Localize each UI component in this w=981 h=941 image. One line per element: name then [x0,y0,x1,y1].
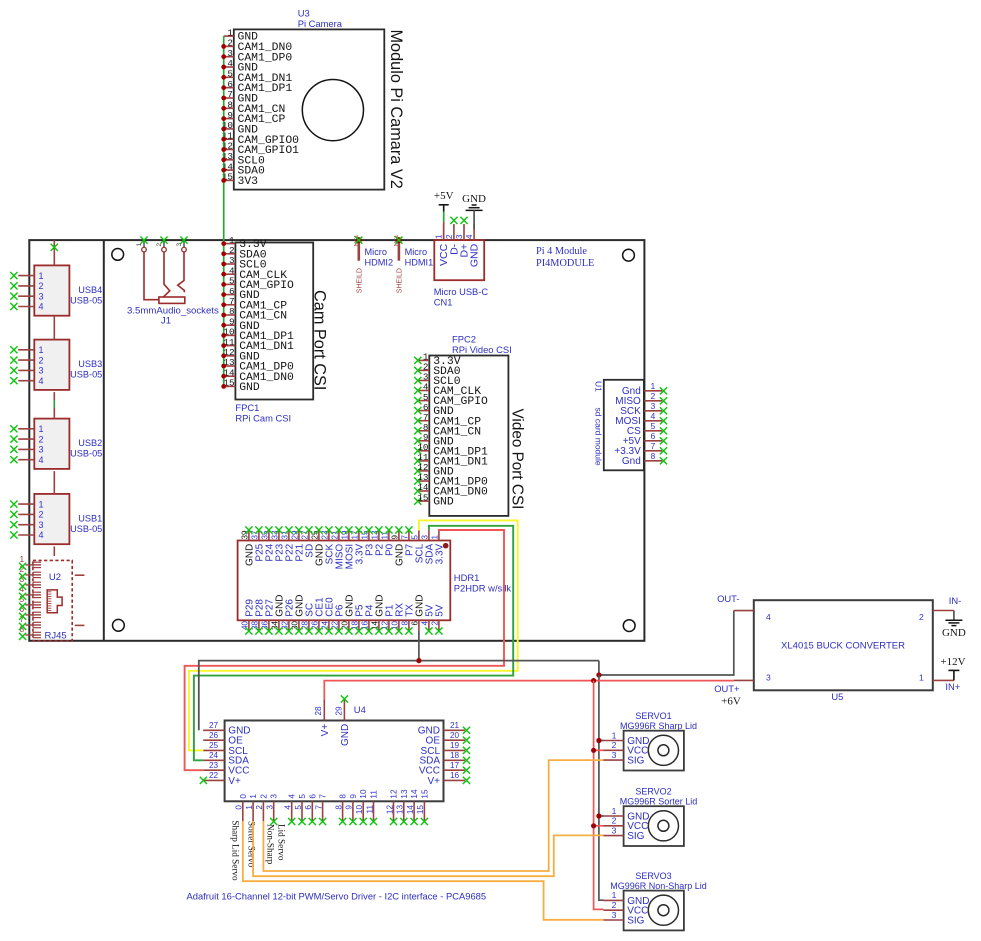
svg-text:GND: GND [469,243,481,267]
svg-text:USB1: USB1 [78,514,102,524]
svg-text:MG996R Sharp Lid: MG996R Sharp Lid [620,721,697,731]
svg-text:HDR1: HDR1 [454,572,480,583]
CN1 reference labels [434,287,489,308]
no-connect X marks HDR1 bottom pins [245,627,442,634]
svg-text:6: 6 [304,805,313,810]
junction dot GND at HDR1 pin6 [416,658,421,663]
connector USB4 USB-05 [18,265,102,315]
svg-text:7: 7 [401,535,410,540]
svg-text:4: 4 [39,455,44,465]
svg-text:8: 8 [334,805,343,810]
no-connect X marks USB2 pins [10,425,17,463]
svg-text:11: 11 [381,531,390,540]
svg-text:2: 2 [431,620,440,625]
svg-text:2: 2 [651,391,656,401]
svg-text:MG996R Sorter Lid: MG996R Sorter Lid [620,796,698,806]
svg-text:6: 6 [651,431,656,441]
U1 side labels [593,381,603,466]
connector FPC2 RPi Video CSI [414,352,508,516]
svg-text:Video Port CSI: Video Port CSI [509,409,526,510]
svg-text:6: 6 [308,794,317,799]
svg-text:XL4015 BUCK CONVERTER: XL4015 BUCK CONVERTER [781,641,905,652]
connector FPC1 RPi Cam CSI [223,235,313,400]
svg-text:15: 15 [417,492,428,503]
junction dot GND at SERVO2 [596,813,601,818]
wire camera bus (green) U3 to FPC1 [223,36,225,386]
connector CN1 Micro USB-C [434,224,484,280]
svg-text:4: 4 [421,620,430,625]
connector USB2 USB-05 [18,419,102,469]
svg-text:1: 1 [39,424,44,434]
svg-text:8: 8 [339,794,348,799]
svg-text:SHEILD: SHEILD [356,268,363,293]
svg-text:14: 14 [406,805,415,815]
junction dot V+ bus [591,678,596,683]
svg-text:8: 8 [651,451,656,461]
svg-text:GND: GND [433,497,454,509]
svg-text:26: 26 [209,731,219,740]
converter U5 XL4015 buck [734,600,954,690]
svg-text:13: 13 [396,805,405,815]
wire red 3.3V HDR1 pin1 to U4 pin23 [185,530,504,770]
svg-text:10: 10 [359,789,368,799]
svg-text:1: 1 [39,271,44,281]
svg-text:11: 11 [365,805,374,814]
junction dot GND bus corner [596,672,601,677]
wire USB4 to USB3 [53,316,55,340]
svg-text:Modulo Pi Camara V2: Modulo Pi Camara V2 [387,30,405,189]
svg-text:4: 4 [284,805,293,810]
servo SERVO3 MG996R Non-Sharp Lid [604,871,707,931]
servo channel label Sorter Servo [246,821,256,868]
svg-text:GND: GND [462,193,486,205]
svg-text:27: 27 [209,721,219,730]
svg-text:USB-05: USB-05 [70,295,102,305]
svg-text:4: 4 [651,411,656,421]
svg-text:40: 40 [241,620,250,629]
svg-text:3: 3 [270,794,279,799]
wire USB1 to U2 [53,546,55,556]
wire orange servo0 U4 pin2 to SERVO1 SIG [263,760,603,871]
svg-text:1: 1 [919,673,924,683]
connector J1 3.5mm audio sockets [136,240,186,303]
svg-text:3: 3 [651,401,656,411]
svg-text:2: 2 [919,612,924,622]
no-connect X Micro HDMI1 [395,237,402,244]
svg-text:+6V: +6V [721,696,741,708]
svg-text:3: 3 [39,445,44,455]
svg-text:1: 1 [39,345,44,355]
wire gray GND branch SERVO2 [599,815,604,817]
wire gray GND to U5 pin4 OUT- [599,611,734,675]
svg-text:7: 7 [319,794,328,799]
wire red V+ branch SERVO2 [594,825,604,827]
svg-text:1: 1 [612,806,617,816]
junction dot Micro HDMI2 on board edge [356,237,362,243]
wire gray GND HDR1 pin6 down [418,630,420,660]
no-connect X on CN1 pins 2 and 3 [450,217,467,224]
svg-text:OUT-: OUT- [717,593,739,604]
svg-text:USB-05: USB-05 [70,524,102,534]
no-connect X marks U1 pins [660,387,667,464]
wire GND symbol to CN1 pin4 [473,210,475,229]
no-connect X U4 pin 22 [200,777,207,784]
svg-text:MG996R Non-Sharp Lid: MG996R Non-Sharp Lid [610,881,707,891]
no-connect X marks HDR1 top pins [245,526,412,533]
svg-text:9: 9 [349,794,358,799]
svg-text:1: 1 [20,554,25,564]
svg-text:24: 24 [209,751,219,760]
mounting hole top-right [623,249,635,261]
svg-text:23: 23 [209,761,219,770]
wire orange servo2 U4 pin0 to SERVO3 SIG [243,821,604,920]
no-connect X marks USB3 pins [10,346,17,384]
Pi 4 Module board outline [29,240,644,641]
wire gray GND bus down to servos [599,675,604,900]
svg-text:SERVO3: SERVO3 [635,871,671,881]
svg-text:5: 5 [298,794,307,799]
svg-text:2: 2 [39,281,44,291]
svg-text:FPC1: FPC1 [235,402,259,413]
svg-text:6: 6 [411,620,420,625]
wire USB3 to USB2 (green mid segment) [53,392,55,419]
svg-text:16: 16 [450,771,460,780]
svg-text:GND: GND [239,382,260,394]
junction dot V+ at SERVO2 [591,823,596,828]
module U1 sd card [604,380,662,471]
svg-text:3: 3 [612,825,617,835]
svg-text:17: 17 [450,761,460,770]
svg-text:2: 2 [612,816,617,826]
svg-text:9: 9 [345,805,354,810]
svg-text:3: 3 [39,520,44,530]
svg-text:4: 4 [39,530,44,540]
mounting hole top-left [112,249,124,261]
junction dot Micro HDMI1 on board edge [396,237,402,243]
svg-text:13: 13 [400,789,409,799]
svg-text:RJ45: RJ45 [45,631,67,642]
U3 reference labels [298,8,343,30]
svg-text:25: 25 [209,741,219,750]
FPC1 reference labels [235,402,291,424]
svg-text:21: 21 [450,721,460,730]
svg-text:3: 3 [455,234,464,239]
net label IN+ [945,681,960,692]
no-connect X U4 right pins 21-16 [463,727,470,784]
svg-text:11: 11 [370,790,379,799]
connector Micro HDMI2 [354,235,393,294]
FPC1 side text Cam Port CSI [311,290,329,390]
svg-text:3: 3 [421,535,430,540]
svg-text:2: 2 [445,234,454,239]
power symbol GND at CN1 pin4 [462,193,486,210]
svg-text:9: 9 [391,535,400,540]
mounting hole bottom-left [113,619,125,631]
svg-text:18: 18 [450,751,460,760]
connector U2 RJ45 [20,554,85,642]
wire red V+ U4 pin28 to U5 pin3 OUT+ [324,681,734,700]
svg-text:Sharp Lid Servo: Sharp Lid Servo [231,820,241,881]
svg-text:Pi Camera: Pi Camera [298,18,343,29]
svg-text:5: 5 [651,421,656,431]
no-connect X marks USB1 pins [10,501,17,539]
svg-text:Sorter Servo: Sorter Servo [246,821,256,868]
U4 caption Adafruit PCA9685 [187,891,487,902]
connector USB3 USB-05 [18,340,102,390]
svg-text:22: 22 [209,771,219,780]
junction dots on camera bus at U3 pins [221,44,226,183]
wire gray GND horizontal to U4 pin27 [199,661,599,731]
svg-text:4: 4 [766,612,771,622]
svg-text:Micro USB-C: Micro USB-C [434,287,489,297]
svg-text:0: 0 [235,805,244,810]
net label OUT- [717,593,739,604]
FPC2 side text Video Port CSI [509,409,526,510]
svg-text:USB2: USB2 [78,438,102,448]
svg-text:4: 4 [288,794,297,799]
svg-text:Adafruit 16-Channel 12-bit PWM: Adafruit 16-Channel 12-bit PWM/Servo Dri… [187,891,487,902]
servo channel label Non-Sharp Lid Servo [266,824,287,865]
no-connect X on USB4 top wire [51,244,58,251]
svg-text:1: 1 [651,381,656,391]
svg-text:3.5mmAudio_sockets: 3.5mmAudio_sockets [127,306,219,317]
svg-text:7: 7 [314,805,323,810]
svg-text:SIG: SIG [627,915,644,926]
net label OUT+ and +6V [714,683,741,708]
svg-text:U5: U5 [831,691,843,702]
svg-text:3: 3 [612,750,617,760]
svg-text:OUT+: OUT+ [714,683,740,694]
mounting hole bottom-right [623,620,635,632]
svg-text:8: 8 [401,620,410,625]
svg-text:3: 3 [266,805,275,810]
svg-text:P2HDR w/silk: P2HDR w/silk [454,583,512,594]
wire gray GND branch SERVO1 [599,740,604,742]
U3 camera lens circle [302,80,363,141]
svg-text:USB-05: USB-05 [70,370,102,380]
svg-text:FPC2: FPC2 [452,334,476,345]
power symbol +12V at U5 pin1 [940,656,965,680]
driver U4 PCA9685 [203,699,465,821]
svg-text:IN-: IN- [949,595,962,606]
wire USB4 to board edge [53,240,55,265]
svg-text:1: 1 [39,499,44,509]
svg-text:U2: U2 [49,572,61,583]
wire red V+ bus down to servos [594,681,604,910]
svg-text:Micro: Micro [405,247,427,257]
svg-text:0: 0 [239,794,248,799]
servo SERVO2 MG996R Sorter Lid [604,786,698,846]
svg-text:U1: U1 [593,381,603,392]
servo channel label Sharp Lid Servo [231,820,241,881]
svg-text:15: 15 [416,805,425,815]
servo SERVO1 MG996R Sharp Lid [604,711,698,771]
svg-text:V+: V+ [320,724,331,737]
svg-text:10: 10 [355,805,364,815]
U5 reference label [831,691,843,702]
svg-text:1: 1 [612,730,617,740]
no-connect X Micro HDMI2 [355,237,362,244]
svg-text:1: 1 [612,890,617,900]
svg-text:SIG: SIG [627,756,644,767]
svg-text:28: 28 [314,706,323,716]
svg-text:7: 7 [651,441,656,451]
svg-text:4: 4 [465,234,474,239]
wire green +5V to CN1 pin1 [443,212,445,241]
svg-text:RPi Video CSI: RPi Video CSI [452,344,512,355]
svg-text:IN+: IN+ [945,681,960,692]
wire yellow SCL HDR1 pin5 to U4 pin25 [189,520,518,750]
svg-text:HDMI1: HDMI1 [405,257,434,267]
svg-text:USB4: USB4 [78,285,102,295]
svg-text:SERVO1: SERVO1 [635,711,671,721]
connector Micro HDMI1 [394,235,433,294]
svg-text:2: 2 [259,794,268,799]
svg-text:USB-05: USB-05 [70,449,102,459]
wire USB2 to USB1 [53,471,55,494]
svg-text:2: 2 [612,900,617,910]
svg-text:1: 1 [431,535,440,540]
wire green SDA HDR1 pin3 to U4 pin24 [194,526,513,761]
no-connect X U4 pin 29 [341,695,348,702]
no-connect X on J1 pins [140,237,187,244]
svg-text:Lid Servo: Lid Servo [276,824,286,861]
svg-text:U4: U4 [354,704,366,715]
svg-text:GND: GND [340,724,351,746]
svg-text:4: 4 [39,376,44,386]
svg-text:+5V: +5V [434,190,454,202]
net label IN- [949,595,962,606]
wire orange servo1 U4 pin1 to SERVO2 SIG [253,821,603,876]
svg-text:4: 4 [39,302,44,312]
svg-text:J1: J1 [161,316,171,327]
svg-text:29: 29 [334,706,343,716]
svg-text:SHEILD: SHEILD [396,268,403,293]
svg-text:USB3: USB3 [78,359,102,369]
header HDR1 P2HDR w/silk [238,530,451,630]
connector USB1 USB-05 [18,494,102,544]
U3 side text Modulo Pi Camara V2 [387,30,405,189]
svg-text:5: 5 [294,805,303,810]
label Pi 4 Module PI4MODULE [536,246,594,269]
svg-text:V+: V+ [427,776,440,787]
junction dots on camera bus at FPC1 pins [221,241,226,389]
no-connect X marks USB4 pins [10,272,17,310]
svg-text:5: 5 [227,69,233,80]
svg-text:V+: V+ [228,776,241,787]
HDR1 pin1 marker dot [443,543,449,549]
svg-text:SERVO2: SERVO2 [635,786,671,796]
svg-text:HDMI2: HDMI2 [365,257,394,267]
svg-text:2: 2 [39,355,44,365]
svg-text:GND: GND [942,627,966,639]
svg-text:20: 20 [450,731,460,740]
svg-text:12: 12 [385,805,394,815]
svg-text:+12V: +12V [940,656,965,668]
svg-text:Non-Sharp: Non-Sharp [266,824,276,865]
svg-text:3: 3 [39,366,44,376]
svg-text:2: 2 [39,434,44,444]
wire red V+ branch SERVO1 [594,749,604,751]
svg-text:3: 3 [612,910,617,920]
svg-text:2: 2 [39,510,44,520]
svg-text:U3: U3 [298,8,310,19]
FPC2 reference labels [452,334,512,356]
svg-text:1: 1 [249,794,258,799]
junction dot V+ at SERVO1 [591,748,596,753]
svg-text:3: 3 [39,291,44,301]
svg-text:19: 19 [450,741,460,750]
svg-text:3V3: 3V3 [238,176,259,188]
junction dot GND at SERVO1 [596,738,601,743]
svg-text:RPi Cam CSI: RPi Cam CSI [235,413,291,424]
svg-text:PI4MODULE: PI4MODULE [536,258,594,269]
power symbol GND at U5 pin2 [942,611,966,640]
no-connect X marks U2 pins [19,563,26,640]
svg-text:CN1: CN1 [434,298,453,308]
U4 reference label [354,704,366,715]
module U3 Pi Camera [222,27,384,189]
svg-text:14: 14 [410,789,419,799]
power symbol +5V at CN1 pin1 [434,190,454,212]
svg-text:15: 15 [420,789,429,799]
svg-text:1: 1 [245,805,254,810]
svg-text:5: 5 [411,535,420,540]
svg-text:3: 3 [766,673,771,683]
no-connect X U4 bottom pins 3-15 [270,818,428,825]
svg-text:SIG: SIG [627,831,644,842]
svg-text:2: 2 [255,805,264,810]
J1 reference labels [127,306,219,327]
HDR1 reference labels [454,572,512,594]
svg-text:sd card module: sd card module [593,408,603,466]
svg-text:Pi 4 Module: Pi 4 Module [536,246,587,257]
svg-text:5V: 5V [434,604,445,617]
svg-text:2: 2 [612,740,617,750]
svg-text:Micro: Micro [365,247,387,257]
svg-text:Gnd: Gnd [622,456,641,467]
svg-text:12: 12 [390,789,399,799]
svg-text:1: 1 [435,234,444,239]
svg-text:Cam Port CSI: Cam Port CSI [311,290,329,390]
